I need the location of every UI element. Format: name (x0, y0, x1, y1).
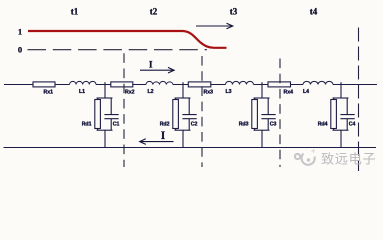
svg-text:C2: C2 (191, 121, 198, 127)
svg-text:L1: L1 (79, 89, 85, 95)
svg-text:I: I (149, 61, 153, 71)
svg-text:C4: C4 (349, 121, 356, 127)
svg-text:Rx1: Rx1 (43, 90, 53, 96)
svg-text:1: 1 (18, 27, 22, 37)
svg-text:Rx2: Rx2 (125, 90, 135, 96)
svg-text:L3: L3 (226, 89, 232, 95)
svg-text:t4: t4 (310, 7, 318, 17)
svg-text:t1: t1 (71, 7, 79, 17)
svg-text:I: I (161, 130, 166, 142)
svg-text:Rd3: Rd3 (239, 122, 249, 128)
svg-text:Rd4: Rd4 (318, 122, 328, 128)
svg-text:C1: C1 (113, 121, 120, 127)
svg-text:t3: t3 (230, 7, 238, 17)
svg-text:致远电子: 致远电子 (321, 152, 376, 167)
svg-text:Rd1: Rd1 (82, 122, 92, 128)
svg-text:Rx4: Rx4 (283, 90, 293, 96)
svg-text:L4: L4 (303, 89, 309, 95)
svg-text:L2: L2 (148, 89, 154, 95)
svg-text:t2: t2 (150, 7, 158, 17)
svg-text:Rx3: Rx3 (203, 90, 213, 96)
svg-text:C3: C3 (270, 121, 277, 127)
svg-text:Rd2: Rd2 (160, 122, 170, 128)
svg-text:0: 0 (18, 45, 22, 55)
